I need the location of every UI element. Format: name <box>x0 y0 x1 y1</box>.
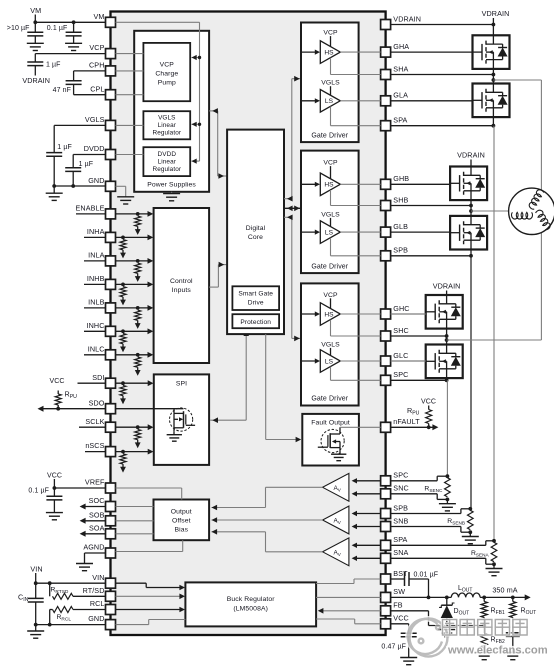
wire DVDD pin to DVDD regulator <box>116 154 144 156</box>
transistor Q1 phase A high-side <box>473 35 510 69</box>
ground fault output mosfet <box>331 453 346 455</box>
pin SOA (left 22) <box>106 529 116 539</box>
svg-text:INHB: INHB <box>87 274 105 283</box>
pin SOB (left 21) <box>106 516 116 526</box>
svg-text:GLB: GLB <box>393 222 408 231</box>
svg-text:Regulator: Regulator <box>152 166 181 173</box>
wire digital core to gate driver B (bidirectional) <box>284 207 301 209</box>
power supplies outer box <box>134 31 209 192</box>
ground RSENC <box>446 499 448 503</box>
junction nFAULT pull-up <box>427 425 431 429</box>
wire VCC pin to buck <box>355 623 381 625</box>
junction VGLS cap / GND wire <box>52 184 56 188</box>
block Protection <box>232 314 279 328</box>
svg-text:DVDD: DVDD <box>84 144 105 153</box>
svg-text:CPL: CPL <box>90 84 104 93</box>
pin VCP (left 2) <box>106 49 116 59</box>
svg-text:LS: LS <box>325 98 334 105</box>
wire amp C output to offset bias <box>266 486 323 488</box>
wire GLA pin to Q2 gate <box>391 100 473 102</box>
wire VDRAIN stub phase B <box>470 160 472 167</box>
resistor pulldown INHB <box>120 287 126 297</box>
svg-text:Smart Gate: Smart Gate <box>238 291 273 298</box>
svg-text:47 nF: 47 nF <box>53 87 71 94</box>
wire SHC output <box>330 320 332 336</box>
wire GHA output <box>340 51 380 53</box>
wire buck to BST pin <box>316 583 354 585</box>
svg-text:Bias: Bias <box>174 527 188 534</box>
svg-text:Output: Output <box>171 509 192 516</box>
wire INLA external stub <box>84 260 106 262</box>
wire VDRAIN pin external <box>391 24 494 26</box>
junction VM / 0.1uF cap <box>72 20 76 24</box>
resistor RRTSD <box>49 583 51 596</box>
transistor Q6 phase C low-side <box>426 345 463 379</box>
wire GLB output <box>340 231 380 233</box>
block Digital Core <box>227 130 284 335</box>
wire HS input (gate driver B) <box>301 183 317 185</box>
wire INLB external stub <box>84 307 106 309</box>
pin SNB (right 18) <box>381 522 391 532</box>
resistor RSENC <box>445 478 451 497</box>
pin SOC (left 20) <box>106 502 116 512</box>
buffer HS (gate driver C) <box>320 303 340 326</box>
svg-text:ENABLE: ENABLE <box>76 204 105 213</box>
wire SDI external stub <box>78 382 106 384</box>
junction GND/CIN <box>34 623 38 627</box>
buffer HS (gate driver A) <box>320 41 340 64</box>
svg-text:SOC: SOC <box>89 496 105 505</box>
svg-text:Fault Output: Fault Output <box>311 420 350 427</box>
junction VREF cap <box>53 486 57 490</box>
wire amp input - (C) <box>354 493 381 495</box>
pin INLB (left 12) <box>106 303 116 313</box>
wire HS input (gate driver C) <box>301 313 317 315</box>
block Output Offset Bias <box>154 500 210 541</box>
capacitor 47 nF (CPH-CPL) <box>66 80 82 82</box>
svg-text:Gate Driver: Gate Driver <box>311 263 348 270</box>
svg-text:FB: FB <box>393 601 402 610</box>
svg-text:SPB: SPB <box>393 503 408 512</box>
svg-text:(LM5008A): (LM5008A) <box>233 606 268 613</box>
wire INLC pin to control inputs <box>116 354 151 356</box>
wire SCLK external stub <box>79 426 106 428</box>
svg-text:Control: Control <box>170 278 193 285</box>
junction VDRAIN <box>492 23 496 27</box>
ground RSENA <box>493 564 495 568</box>
wire INHC pin to control inputs <box>116 330 151 332</box>
resistor pulldown INHC <box>120 334 126 344</box>
wire GND pin internal <box>116 185 126 187</box>
block Buck Regulator LM5008A <box>185 582 316 626</box>
block Control Inputs <box>154 208 210 363</box>
wire VREF external <box>53 479 55 488</box>
pin INHC (left 13) <box>106 326 116 336</box>
capacitor 0.01 uF (BST) <box>404 572 406 586</box>
wire SCLK pin to SPI <box>116 426 151 428</box>
wire buck to SW pin <box>316 596 381 598</box>
svg-text:GND: GND <box>88 614 104 623</box>
svg-text:Power Supplies: Power Supplies <box>147 182 196 189</box>
svg-text:HS: HS <box>324 50 334 57</box>
ground RFB2 <box>483 648 485 653</box>
svg-text:VCC: VCC <box>49 378 64 385</box>
resistor pulldown INLB <box>135 310 141 320</box>
svg-text:RT/SD: RT/SD <box>83 586 105 595</box>
wire VCC external stub <box>391 623 409 625</box>
pin SDI (left 15) <box>106 378 116 388</box>
pin nFAULT (right 14) <box>381 422 391 432</box>
svg-text:Buck Regulator: Buck Regulator <box>227 596 276 603</box>
block Gate Driver A <box>301 23 359 143</box>
svg-text:SNA: SNA <box>393 548 408 557</box>
wire GLC pin to Q6 gate <box>391 360 426 362</box>
pin VREF (left 19) <box>106 483 116 493</box>
wire SPI to protection (bidirectional) <box>210 419 246 421</box>
wire CPH to 47nF cap <box>74 70 106 72</box>
wire amp input - (B) <box>354 526 381 528</box>
junction RFB1 <box>482 596 486 600</box>
resistor pulldown INHA <box>120 240 126 250</box>
svg-text:Regulator: Regulator <box>152 130 181 137</box>
wire SOC external arrow <box>82 506 106 508</box>
wire SHC pin to node <box>391 335 447 337</box>
junction GND/RRCL <box>48 623 52 627</box>
resistor RFB1 <box>483 597 485 601</box>
svg-text:nSCS: nSCS <box>85 441 104 450</box>
wire GHC pin to Q5 gate <box>391 313 426 315</box>
resistor RFB2 <box>481 633 487 648</box>
svg-text:AGND: AGND <box>83 543 104 552</box>
block DVDD Linear Regulator <box>143 147 190 176</box>
pin GND (left 27) <box>106 620 116 630</box>
wire SPA output <box>330 107 332 126</box>
resistor RSENA <box>491 542 497 561</box>
ground internal near GND pin <box>117 196 134 198</box>
junction RSENC bottom <box>446 498 450 502</box>
svg-text:GHA: GHA <box>393 42 409 51</box>
capacitor CIN <box>35 583 37 598</box>
transistor Q4 phase B low-side <box>450 216 487 250</box>
svg-text:VDRAIN: VDRAIN <box>393 14 421 23</box>
wire VDRAIN stub phase C <box>446 291 448 296</box>
svg-text:GHC: GHC <box>393 304 409 313</box>
wire SHA pin to node <box>391 74 494 76</box>
wire amp input + (C) <box>354 480 381 482</box>
svg-text:www.elecfans.com: www.elecfans.com <box>447 645 548 657</box>
wire FB external to divider <box>391 610 429 612</box>
svg-text:VM: VM <box>30 6 41 15</box>
svg-text:1 µF: 1 µF <box>79 161 94 168</box>
SPI open-drain mosfet <box>170 408 193 431</box>
block Gate Driver B <box>301 151 359 274</box>
wire GHA pin to Q1 gate <box>391 51 473 53</box>
wire SHA node <box>492 69 494 84</box>
wire SN to RSENB bottom <box>391 526 461 528</box>
wire power supplies to digital core (bidirectional) <box>209 110 218 112</box>
buffer LS (gate driver A) <box>320 90 340 113</box>
transistor Q2 phase A low-side <box>473 84 510 118</box>
svg-text:VIN: VIN <box>30 565 42 574</box>
svg-text:SHA: SHA <box>393 64 408 73</box>
wire amp input - (A) <box>354 557 381 559</box>
junction INHC pulldown <box>121 329 125 333</box>
wire control inputs to digital core <box>209 286 218 288</box>
ground under bulk cap <box>27 42 44 44</box>
pin RT/SD (left 25) <box>106 591 116 601</box>
pin GHC (right 10) <box>381 309 391 319</box>
svg-text:GLC: GLC <box>393 351 408 360</box>
capacitor 1 uF (DVDD) <box>65 167 81 169</box>
wire SPA pin to node <box>391 125 494 127</box>
wire VGLS pin to 1uF cap <box>54 124 105 126</box>
wire CPH pin to charge pump <box>116 70 144 72</box>
wire VIN pin to buck <box>116 582 147 584</box>
ground under 0.1uF cap <box>65 42 82 44</box>
junction INLC pulldown <box>136 353 140 357</box>
junction SCLK pulldown <box>136 425 140 429</box>
svg-text:GHB: GHB <box>393 174 409 183</box>
junction RSENA bottom <box>492 562 496 566</box>
wire SPB node <box>470 250 472 256</box>
pin SHB (right 7) <box>381 201 391 211</box>
wire SOB external arrow <box>82 520 106 522</box>
svg-text:RCL: RCL <box>90 599 105 608</box>
wire SP to RSENC top <box>391 480 438 482</box>
wire SOA external arrow <box>82 533 106 535</box>
svg-text:VCP: VCP <box>323 292 338 299</box>
ground DOUT <box>438 629 455 631</box>
wire digital core to gate driver C <box>284 216 292 218</box>
junction INLA pulldown <box>136 259 140 263</box>
wire VIN external vertical <box>35 573 37 583</box>
pin VM (left 1) <box>106 17 116 27</box>
capacitor 0.1 uF (VREF) <box>53 488 55 496</box>
wire AGND external to ground <box>85 552 106 554</box>
resistor pulldown SCLK <box>135 429 141 439</box>
svg-text:SNB: SNB <box>393 516 408 525</box>
wire DVDD pin to 1uF cap <box>73 154 105 156</box>
svg-text:HS: HS <box>324 311 334 318</box>
junction SDI pulldown <box>121 381 125 385</box>
wire SW external <box>391 596 452 598</box>
pin GHB (right 6) <box>381 179 391 189</box>
pin VGLS (left 5) <box>106 120 116 130</box>
junction INHB pulldown <box>121 283 125 287</box>
svg-text:INHC: INHC <box>87 321 105 330</box>
svg-text:VGLS: VGLS <box>321 341 340 348</box>
capacitor 1 uF (VCP-VDRAIN) <box>27 61 43 63</box>
wire SPA node <box>492 117 494 126</box>
svg-text:SPA: SPA <box>393 535 407 544</box>
svg-text:0.1 µF: 0.1 µF <box>28 488 49 495</box>
resistor ROUT <box>512 597 514 601</box>
svg-text:VCC: VCC <box>421 399 436 406</box>
junction SW/DOUT <box>445 596 449 600</box>
wire SP to RSENB top <box>391 513 461 515</box>
wire SDI pin to SPI <box>116 382 151 384</box>
wire amp input + (A) <box>354 544 381 546</box>
svg-text:GND: GND <box>88 176 104 185</box>
wire SOB from offset bias <box>116 520 154 522</box>
svg-text:SPI: SPI <box>176 380 187 387</box>
svg-text:1 µF: 1 µF <box>57 144 72 151</box>
svg-text:SDI: SDI <box>92 373 104 382</box>
svg-text:SHB: SHB <box>393 195 408 204</box>
wire INLB pin to control inputs <box>116 307 151 309</box>
wire SOA from offset bias <box>116 533 154 535</box>
svg-text:CPH: CPH <box>89 61 104 70</box>
wire VCP pin to flying cap <box>35 53 105 55</box>
svg-text:nFAULT: nFAULT <box>393 417 420 426</box>
wire VREF to offset bias <box>116 487 182 489</box>
pin GLB (right 8) <box>381 227 391 237</box>
svg-text:LS: LS <box>325 230 334 237</box>
svg-text:Linear: Linear <box>158 158 177 165</box>
block Gate Driver C <box>301 283 359 405</box>
wire motor phase B <box>469 209 473 213</box>
svg-text:SHC: SHC <box>393 326 408 335</box>
block Fault Output <box>302 414 359 466</box>
svg-text:GLA: GLA <box>393 91 408 100</box>
pin RCL (left 26) <box>106 605 116 615</box>
wire FB junction <box>483 618 485 634</box>
pin SPC (right 15) <box>381 476 391 486</box>
svg-text:350 mA: 350 mA <box>492 585 517 594</box>
pin SHC (right 11) <box>381 331 391 341</box>
ground SPI mosfet <box>167 434 182 436</box>
wire SHB output <box>330 190 332 206</box>
pin SPB (right 9) <box>381 251 391 261</box>
svg-text:SW: SW <box>393 587 405 596</box>
ground internal under power supplies <box>171 192 173 194</box>
svg-text:SOA: SOA <box>89 523 105 532</box>
watermark logo circle <box>408 619 448 657</box>
wire VGLS pin to VGLS regulator <box>116 124 144 126</box>
wire sense line phase A (SPA to RSENA) <box>493 126 495 541</box>
watermark chinese text <box>443 620 528 636</box>
diode DOUT (catch diode) <box>446 597 448 605</box>
junction SDO pull-up <box>56 407 60 411</box>
wire GLB pin to Q4 gate <box>391 231 451 233</box>
pin VIN (left 24) <box>106 578 116 588</box>
pin AGND (left 23) <box>106 548 116 558</box>
junction RSENC top <box>446 474 450 478</box>
pin SPC (right 13) <box>381 375 391 385</box>
svg-text:Pump: Pump <box>158 80 176 87</box>
svg-text:VCC: VCC <box>393 614 408 623</box>
svg-text:1 µF: 1 µF <box>46 61 61 68</box>
wire motor phase C <box>445 338 449 342</box>
wire SPC pin to node <box>391 379 447 381</box>
wire INHA external stub <box>84 236 106 238</box>
wire GND pin external <box>36 624 106 626</box>
wire GHB output <box>340 183 380 185</box>
svg-text:Drive: Drive <box>248 300 264 307</box>
amplifier A_v (C) <box>323 473 349 501</box>
block VGLS Linear Regulator <box>143 111 190 139</box>
wire SDO pin to SPI mosfet <box>116 408 184 410</box>
transistor Q5 phase C high-side <box>426 295 463 329</box>
wire SHA output <box>330 58 332 75</box>
wire nSCS pin to SPI <box>116 451 151 453</box>
wire LS input (gate driver A) <box>301 100 317 102</box>
wire sense line phase C (SPC to RSENC) <box>446 380 448 476</box>
block VCP Charge Pump <box>143 43 190 101</box>
svg-text:VGLS: VGLS <box>321 211 340 218</box>
pin GND (left 7) <box>106 181 116 191</box>
pin GLA (right 4) <box>381 96 391 106</box>
svg-text:SOB: SOB <box>89 510 105 519</box>
junction DVDD cap / GND wire <box>71 184 75 188</box>
wire output after LOUT <box>480 596 527 598</box>
fault output open-drain mosfet <box>321 429 344 452</box>
svg-text:INLA: INLA <box>88 251 104 260</box>
resistor pulldown SDI <box>120 385 126 395</box>
wire GND pin to external ground <box>54 185 105 187</box>
wire SPB output <box>330 238 332 256</box>
svg-text:VIN: VIN <box>92 573 104 582</box>
svg-text:Core: Core <box>248 234 263 241</box>
svg-text:VCC: VCC <box>47 472 62 479</box>
svg-text:VM: VM <box>94 12 105 21</box>
wire SN to RSENA bottom <box>391 557 486 559</box>
wire digital core to gate driver A <box>284 198 292 200</box>
wire SPC node <box>446 378 448 380</box>
wire SHC node <box>446 329 448 345</box>
pin SPB (right 17) <box>381 509 391 519</box>
svg-text:SCLK: SCLK <box>85 417 104 426</box>
svg-text:VGLS: VGLS <box>158 115 175 122</box>
pin GHA (right 2) <box>381 47 391 57</box>
wire nSCS external stub <box>85 451 106 453</box>
pin CPH (left 3) <box>106 66 116 76</box>
wire SHB pin to node <box>391 205 471 207</box>
capacitor 1 uF (VGLS) <box>46 152 62 154</box>
svg-text:VDRAIN: VDRAIN <box>433 282 461 291</box>
wire amp A output to offset bias <box>266 551 323 553</box>
svg-text:VCP: VCP <box>89 43 104 52</box>
resistor pulldown ENABLE <box>135 216 141 226</box>
wire GLC output <box>340 360 380 362</box>
pin SPA (right 19) <box>381 540 391 550</box>
svg-text:VGLS: VGLS <box>85 115 105 124</box>
wire SHB node <box>470 200 472 216</box>
svg-text:SPA: SPA <box>393 116 407 125</box>
wire AGND from offset bias <box>182 540 184 551</box>
svg-text:INLC: INLC <box>88 344 105 353</box>
wire SPB pin to node <box>391 255 471 257</box>
svg-text:VDRAIN: VDRAIN <box>482 9 510 18</box>
wire amp input + (B) <box>354 513 381 515</box>
amplifier A_v (B) <box>323 506 349 534</box>
junction ENABLE pulldown <box>136 212 140 216</box>
resistor RPU (SDO pull-up) <box>57 405 59 409</box>
arrow into VGLS regulator <box>192 123 200 125</box>
wire RT/SD pin to buck <box>116 595 183 597</box>
svg-text:0.1 µF: 0.1 µF <box>47 25 68 32</box>
wire INLA pin to control inputs <box>116 260 151 262</box>
motor (BLDC) symbol <box>509 188 554 234</box>
svg-text:VDRAIN: VDRAIN <box>22 76 50 85</box>
pin CPL (left 4) <box>106 90 116 100</box>
capacitor 0.47 uF (VCC) <box>408 624 410 633</box>
pin SNC (right 16) <box>381 489 391 499</box>
wire FB pin to buck <box>319 610 381 612</box>
pin INLC (left 14) <box>106 350 116 360</box>
svg-text:VCP: VCP <box>323 30 338 37</box>
wire SN to RSENC bottom <box>391 493 438 495</box>
